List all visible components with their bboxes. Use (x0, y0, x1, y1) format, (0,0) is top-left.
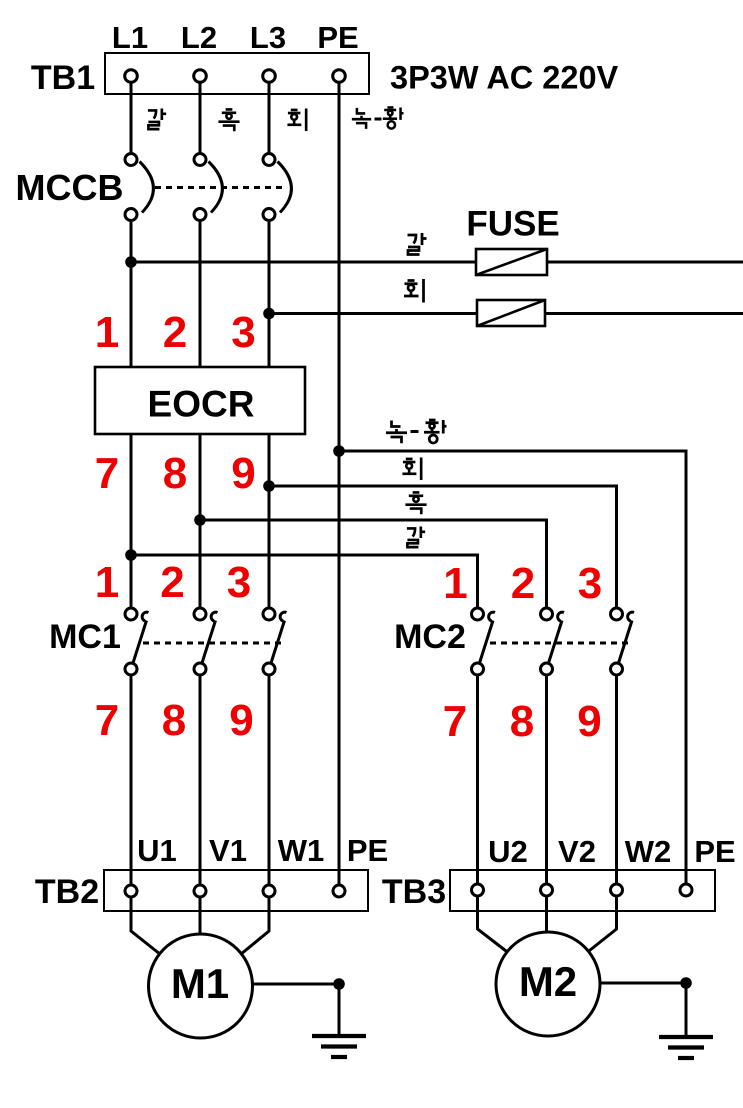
svg-text:U1: U1 (137, 833, 177, 868)
svg-text:MCCB: MCCB (16, 167, 124, 208)
svg-text:3: 3 (231, 308, 255, 357)
svg-text:2: 2 (511, 559, 535, 608)
svg-text:2: 2 (160, 558, 184, 607)
svg-text:L1: L1 (112, 20, 148, 55)
svg-text:M1: M1 (171, 960, 229, 1007)
svg-text:PE: PE (317, 20, 358, 55)
svg-text:FUSE: FUSE (466, 205, 559, 244)
svg-text:L2: L2 (181, 20, 217, 55)
svg-text:7: 7 (95, 696, 119, 745)
svg-text:PE: PE (694, 834, 735, 869)
svg-text:MC2: MC2 (394, 618, 466, 656)
svg-text:V2: V2 (558, 834, 596, 869)
svg-text:M2: M2 (519, 958, 577, 1005)
svg-text:2: 2 (163, 308, 187, 357)
svg-text:TB2: TB2 (35, 873, 99, 911)
svg-text:8: 8 (510, 697, 534, 746)
svg-text:1: 1 (95, 558, 119, 607)
svg-text:7: 7 (95, 449, 119, 498)
svg-text:U2: U2 (488, 834, 528, 869)
svg-text:3: 3 (227, 558, 251, 607)
svg-text:TB3: TB3 (382, 873, 446, 911)
svg-text:3P3W AC 220V: 3P3W AC 220V (390, 60, 619, 96)
svg-text:W1: W1 (278, 833, 325, 868)
svg-text:8: 8 (163, 449, 187, 498)
svg-text:MC1: MC1 (49, 618, 121, 656)
svg-text:9: 9 (229, 696, 253, 745)
svg-text:1: 1 (443, 559, 467, 608)
svg-text:7: 7 (443, 697, 467, 746)
svg-text:9: 9 (577, 697, 601, 746)
svg-text:9: 9 (231, 449, 255, 498)
svg-text:EOCR: EOCR (148, 384, 255, 425)
svg-text:L3: L3 (250, 20, 286, 55)
svg-text:8: 8 (162, 696, 186, 745)
svg-text:3: 3 (578, 559, 602, 608)
svg-text:1: 1 (95, 308, 119, 357)
svg-text:TB1: TB1 (31, 59, 95, 97)
svg-text:PE: PE (347, 833, 388, 868)
svg-text:W2: W2 (625, 834, 672, 869)
svg-text:V1: V1 (209, 833, 247, 868)
